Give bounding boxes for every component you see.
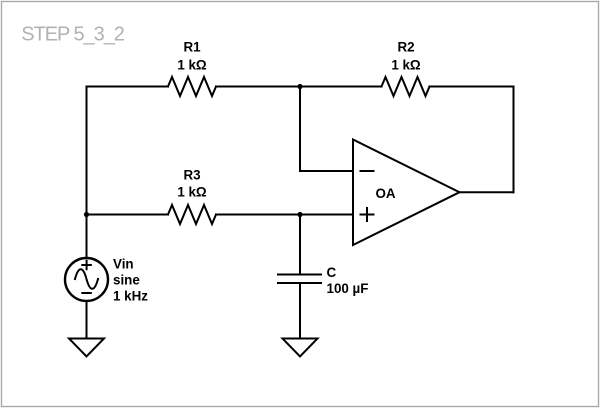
junction node A (top, R1/R2/inverting)	[297, 84, 302, 89]
wire: left rail vertical	[86, 87, 88, 259]
pin: inverting input (-)	[361, 170, 374, 172]
svg-text:R3: R3	[183, 168, 200, 183]
wire: source to ground	[86, 301, 88, 339]
svg-text:sine: sine	[113, 273, 140, 288]
svg-text:1 kHz: 1 kHz	[113, 289, 148, 304]
wire: right rail vertical (feedback)	[513, 87, 515, 193]
pin: non-inverting input (+)	[361, 208, 374, 221]
source V1 minus mark	[82, 292, 91, 294]
op-amp OA	[353, 140, 460, 246]
wire: R1 to node A	[216, 86, 300, 88]
svg-text:R2: R2	[397, 40, 414, 55]
svg-text:STEP 5_3_2: STEP 5_3_2	[21, 23, 124, 45]
resistor R2	[382, 77, 430, 96]
wire: node C to non-inverting input	[300, 214, 353, 216]
svg-text:OA: OA	[376, 186, 396, 201]
svg-text:1 kΩ: 1 kΩ	[177, 184, 207, 199]
wire: node A to R2	[300, 86, 382, 88]
resistor R1	[168, 77, 216, 96]
wire: node C down to capacitor	[299, 215, 301, 275]
source V1 sine waveform	[75, 269, 98, 289]
capacitor C	[278, 275, 321, 284]
svg-text:1 kΩ: 1 kΩ	[177, 57, 207, 72]
svg-text:1 kΩ: 1 kΩ	[391, 57, 421, 72]
resistor R3	[168, 205, 216, 224]
junction node C (R3 / + input / C)	[297, 212, 302, 217]
wire: node B to R3	[87, 214, 169, 216]
wire: node A down to inverting input	[300, 87, 353, 172]
wire: R2 to right rail	[430, 86, 514, 88]
svg-text:C: C	[327, 265, 337, 280]
wire: R3 to node C	[216, 214, 300, 216]
junction node B (left rail / R3)	[84, 212, 89, 217]
source V1 (Vin sine)	[65, 258, 108, 301]
svg-text:R1: R1	[183, 40, 201, 55]
ground (capacitor)	[283, 339, 318, 357]
svg-text:Vin: Vin	[113, 257, 134, 272]
wire: left rail top to R1	[87, 86, 169, 88]
svg-text:100 µF: 100 µF	[327, 281, 369, 296]
wire: capacitor to ground	[299, 283, 301, 339]
ground (source)	[69, 339, 104, 357]
wire: op-amp output	[460, 191, 514, 193]
source V1 plus mark	[82, 261, 91, 269]
